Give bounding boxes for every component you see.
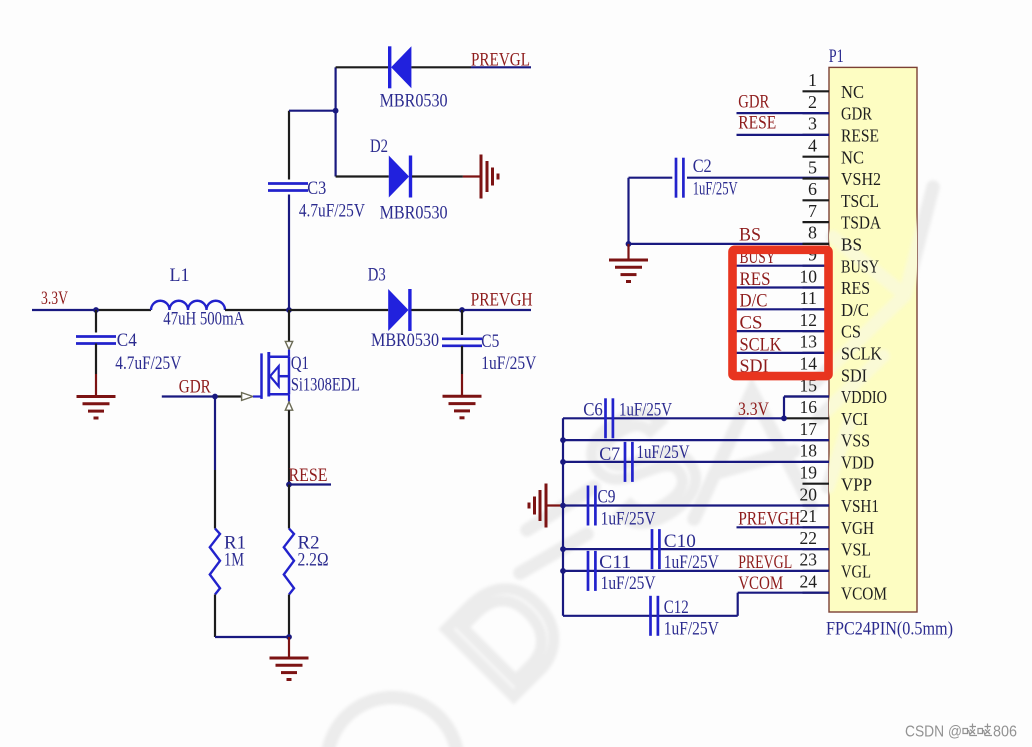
earth ground (D2) xyxy=(480,155,483,199)
net VCOM (pin24) xyxy=(738,592,829,594)
svg-text:3.3V: 3.3V xyxy=(738,399,769,420)
svg-text:4.7uF/25V: 4.7uF/25V xyxy=(299,201,365,222)
svg-text:17: 17 xyxy=(800,419,818,439)
svg-text:RESE: RESE xyxy=(841,126,879,146)
svg-text:CSDN @: CSDN @ xyxy=(905,724,962,741)
svg-text:21: 21 xyxy=(800,506,818,526)
svg-text:PREVGL: PREVGL xyxy=(738,552,792,573)
junction xyxy=(560,437,566,443)
junction (Q1 drain / C3 tap) xyxy=(286,307,292,313)
diode D3 (MBR0530) xyxy=(388,289,408,331)
pin 17 stub xyxy=(803,439,830,441)
svg-text:BUSY: BUSY xyxy=(841,256,879,276)
net PREVGH (pin21) xyxy=(737,526,830,528)
svg-text:2.2Ω: 2.2Ω xyxy=(298,550,329,571)
capacitor C7 xyxy=(624,442,627,482)
net D/C (pin11) xyxy=(737,308,830,310)
junction xyxy=(781,415,787,421)
ground (C5) xyxy=(443,395,482,398)
svg-text:1uF/25V: 1uF/25V xyxy=(693,179,738,200)
svg-text:VSH2: VSH2 xyxy=(841,169,881,189)
pin 5 stub xyxy=(803,177,830,179)
svg-text:NC: NC xyxy=(841,147,864,167)
svg-text:CS: CS xyxy=(841,322,861,342)
junction xyxy=(560,503,566,509)
ground bus xyxy=(562,418,564,616)
svg-text:VDDIO: VDDIO xyxy=(841,387,887,407)
svg-text:1uF/25V: 1uF/25V xyxy=(637,442,690,463)
pin 21 stub xyxy=(803,526,830,528)
svg-text:NC: NC xyxy=(841,82,864,102)
svg-text:VCOM: VCOM xyxy=(738,573,783,594)
junction xyxy=(286,634,292,640)
net BUSY (pin9) xyxy=(737,265,830,267)
svg-text:C5: C5 xyxy=(481,331,499,352)
svg-text:PREVGL: PREVGL xyxy=(471,50,530,71)
svg-text:C11: C11 xyxy=(599,552,631,573)
svg-text:4.7uF/25V: 4.7uF/25V xyxy=(115,353,181,374)
svg-text:1uF/25V: 1uF/25V xyxy=(481,353,536,374)
net RESE (pin3) xyxy=(737,134,830,136)
svg-text:MBR0530: MBR0530 xyxy=(380,202,448,223)
pin 15 stub xyxy=(784,395,829,397)
svg-text:VCI: VCI xyxy=(841,409,868,429)
net SDI (pin14) xyxy=(737,374,830,376)
pin 22 stub xyxy=(803,548,830,550)
svg-text:RES: RES xyxy=(740,269,771,290)
junction xyxy=(560,568,566,574)
svg-text:GDR: GDR xyxy=(738,91,769,112)
svg-text:1uF/25V: 1uF/25V xyxy=(601,573,656,594)
svg-text:MBR0530: MBR0530 xyxy=(371,330,439,351)
wire xyxy=(225,309,289,311)
svg-text:11: 11 xyxy=(800,288,818,308)
svg-text:C6: C6 xyxy=(583,399,603,420)
net 3.3V (pin15/16) xyxy=(563,417,784,419)
inductor L1 xyxy=(151,301,225,310)
junction (C4 tap) xyxy=(93,307,99,313)
ground (BS) xyxy=(609,259,648,262)
net SCLK (pin13) xyxy=(737,352,830,354)
svg-text:VSS: VSS xyxy=(841,431,870,451)
pin 10 stub xyxy=(803,286,830,288)
wire (VCOM route) xyxy=(737,593,739,616)
capacitor C6 xyxy=(604,398,607,438)
ground (R2) xyxy=(270,657,309,660)
svg-text:PREVGH: PREVGH xyxy=(738,509,800,530)
wire (C3 lower lead) xyxy=(288,195,290,311)
wire (to D2) xyxy=(335,111,337,177)
svg-text:1uF/25V: 1uF/25V xyxy=(619,399,672,420)
junction xyxy=(560,459,566,465)
watermark over connector (pale) xyxy=(327,187,933,747)
pin 23 stub xyxy=(803,570,830,572)
svg-text:GDR: GDR xyxy=(841,104,872,124)
resistor R1 1M xyxy=(214,397,216,471)
svg-text:1uF/25V: 1uF/25V xyxy=(664,618,719,639)
junction (R1 tap) xyxy=(212,394,218,400)
svg-text:1M: 1M xyxy=(224,550,244,571)
capacitor C10 xyxy=(651,529,654,569)
wire xyxy=(96,309,151,311)
net RES (pin10) xyxy=(737,286,830,288)
svg-text:SCLK: SCLK xyxy=(740,334,782,355)
svg-text:BS: BS xyxy=(739,224,761,245)
pin 14 stub xyxy=(803,374,830,376)
wire xyxy=(288,637,290,657)
pin 6 stub xyxy=(803,199,830,201)
svg-text:SDI: SDI xyxy=(841,365,867,385)
net PREVGH xyxy=(462,309,531,311)
svg-text:TSCL: TSCL xyxy=(841,191,879,211)
net CS (pin12) xyxy=(737,330,830,332)
svg-text:D/C: D/C xyxy=(740,291,768,312)
wire (C3 upper lead) xyxy=(288,111,290,180)
svg-text:5: 5 xyxy=(808,157,817,177)
wire (bottom return) xyxy=(215,636,289,638)
svg-text:19: 19 xyxy=(800,463,818,483)
svg-text:D/C: D/C xyxy=(841,300,869,320)
red highlight rectangle (pins 9-14) xyxy=(733,250,829,376)
wire xyxy=(289,110,336,112)
earth ground (bank) xyxy=(545,484,548,528)
svg-text:1: 1 xyxy=(808,70,817,90)
svg-text:CS: CS xyxy=(740,313,763,334)
svg-text:23: 23 xyxy=(800,550,818,570)
pin 20 stub xyxy=(803,504,830,506)
svg-text:VSL: VSL xyxy=(841,540,871,560)
svg-text:Q1: Q1 xyxy=(291,353,309,374)
pin 13 stub xyxy=(803,352,830,354)
pin 12 stub xyxy=(803,330,830,332)
svg-text:L1: L1 xyxy=(170,265,190,286)
svg-text:VGL: VGL xyxy=(841,562,871,582)
wire VSS (pin17) xyxy=(563,439,829,441)
svg-text:VGH: VGH xyxy=(841,518,874,538)
svg-text:C9: C9 xyxy=(598,487,616,508)
capacitor C5 xyxy=(461,310,463,335)
svg-text:C2: C2 xyxy=(693,156,712,177)
svg-text:SCLK: SCLK xyxy=(841,344,882,364)
svg-text:VDD: VDD xyxy=(841,453,874,473)
wire VDD (pin18) xyxy=(563,461,829,463)
svg-text:BS: BS xyxy=(841,235,862,255)
svg-text:RESE: RESE xyxy=(289,465,328,486)
diode D1 (MBR0530) xyxy=(336,66,389,68)
wire VSL (pin22) xyxy=(563,548,829,550)
svg-text:3: 3 xyxy=(808,114,817,134)
svg-text:MBR0530: MBR0530 xyxy=(380,91,448,112)
junction (C5 tap) xyxy=(459,307,465,313)
svg-text:47uH 500mA: 47uH 500mA xyxy=(163,309,244,330)
wire VSH1 (pin20) xyxy=(563,504,829,506)
capacitor C9 xyxy=(587,486,590,526)
svg-text:10: 10 xyxy=(800,266,818,286)
svg-text:C4: C4 xyxy=(117,330,137,351)
pin 19 stub xyxy=(803,483,830,485)
pin 11 stub xyxy=(803,308,830,310)
pin 8 stub xyxy=(803,243,830,245)
svg-text:14: 14 xyxy=(800,354,818,374)
svg-text:GDR: GDR xyxy=(179,376,211,397)
svg-text:8: 8 xyxy=(808,223,817,243)
svg-text:13: 13 xyxy=(800,332,818,352)
wire (Q1 source to RESE) xyxy=(288,410,290,484)
junction xyxy=(626,241,632,247)
capacitor C11 xyxy=(587,551,590,591)
svg-text:RESE: RESE xyxy=(738,113,776,134)
junction xyxy=(560,546,566,552)
capacitor C2 xyxy=(629,177,673,179)
svg-text:C10: C10 xyxy=(664,531,696,552)
mosfet Q1 Si1308EDL xyxy=(288,310,290,341)
svg-text:2: 2 xyxy=(808,92,817,112)
svg-text:PREVGH: PREVGH xyxy=(471,289,533,310)
svg-text:D3: D3 xyxy=(368,265,386,286)
svg-text:1uF/25V: 1uF/25V xyxy=(601,509,656,530)
capacitor C12 xyxy=(649,596,652,636)
svg-text:16: 16 xyxy=(800,397,818,417)
svg-text:VSH1: VSH1 xyxy=(841,496,879,516)
svg-text:D2: D2 xyxy=(370,136,388,157)
svg-text:20: 20 xyxy=(800,484,818,504)
wire xyxy=(627,244,629,259)
svg-text:C7: C7 xyxy=(599,444,620,465)
svg-text:TSDA: TSDA xyxy=(841,213,881,233)
diode D2 (MBR0530) xyxy=(336,175,389,177)
svg-text:4: 4 xyxy=(808,136,817,156)
svg-text:6: 6 xyxy=(808,179,817,199)
wire (C2 ground bus) xyxy=(627,178,629,244)
pin 24 stub xyxy=(803,592,830,594)
svg-text:VCOM: VCOM xyxy=(841,583,887,603)
pin 7 stub xyxy=(803,221,830,223)
wire (jog to VDDIO) xyxy=(783,397,785,419)
svg-text:24: 24 xyxy=(800,572,818,592)
resistor R2 2.2ohm xyxy=(288,485,290,529)
pin 16 stub xyxy=(784,417,829,419)
wire (to D1) xyxy=(335,67,337,110)
svg-text:D: D xyxy=(417,545,598,726)
svg-text:22: 22 xyxy=(800,528,818,548)
svg-text:VPP: VPP xyxy=(841,474,872,494)
capacitor C3 xyxy=(268,182,308,185)
svg-text:7: 7 xyxy=(808,201,817,221)
pin 2 stub xyxy=(803,112,830,114)
pin 3 stub xyxy=(803,134,830,136)
svg-text:3.3V: 3.3V xyxy=(41,288,68,309)
gate port arrow xyxy=(242,393,253,401)
svg-text:806: 806 xyxy=(993,724,1017,741)
pin 1 stub xyxy=(803,90,830,92)
pin 4 stub xyxy=(803,156,830,158)
pin 9 stub xyxy=(803,265,830,267)
wire VGL (pin23) xyxy=(563,570,829,572)
svg-text:RES: RES xyxy=(841,278,870,298)
svg-text:C12: C12 xyxy=(664,597,689,618)
svg-text:C3: C3 xyxy=(307,178,326,199)
capacitor C4 xyxy=(95,310,97,333)
pin 18 stub xyxy=(803,461,830,463)
svg-text:FPC24PIN(0.5mm): FPC24PIN(0.5mm) xyxy=(826,619,953,640)
net PREVGL xyxy=(471,66,531,68)
junction xyxy=(286,482,292,488)
ground (C4) xyxy=(77,395,116,398)
wire xyxy=(289,309,388,311)
svg-text:P1: P1 xyxy=(829,46,844,67)
svg-text:12: 12 xyxy=(800,310,818,330)
net BS xyxy=(629,243,830,245)
junction xyxy=(333,108,339,114)
svg-text:Si1308EDL: Si1308EDL xyxy=(291,374,360,395)
svg-text:18: 18 xyxy=(800,441,818,461)
net GDR (pin2) xyxy=(737,112,830,114)
